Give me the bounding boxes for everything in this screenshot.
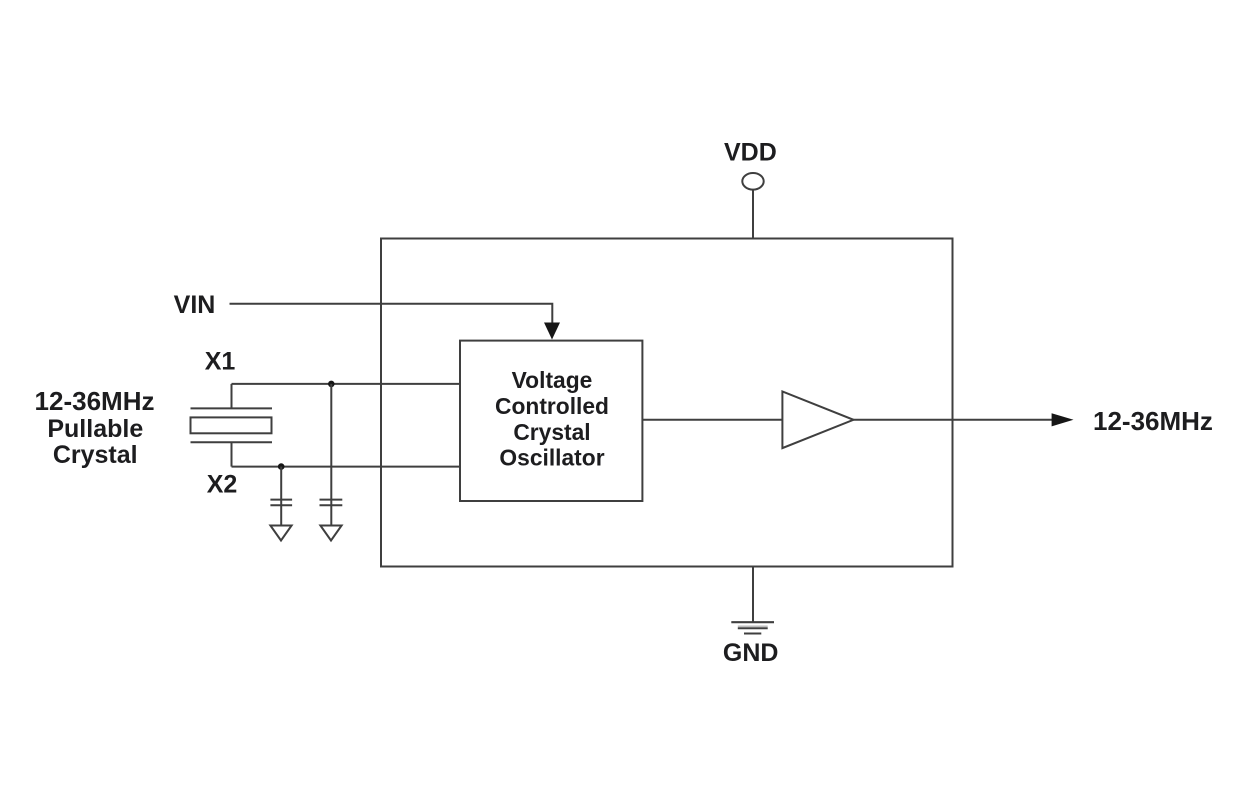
svg-text:X2: X2: [207, 471, 238, 499]
svg-text:Pullable: Pullable: [47, 415, 143, 443]
svg-text:X1: X1: [205, 347, 236, 375]
svg-text:VIN: VIN: [174, 291, 216, 319]
svg-text:Oscillator: Oscillator: [499, 445, 604, 471]
svg-text:12-36MHz: 12-36MHz: [1093, 406, 1213, 436]
svg-text:GND: GND: [723, 639, 779, 667]
svg-text:Crystal: Crystal: [53, 441, 138, 469]
svg-text:12-36MHz: 12-36MHz: [35, 386, 155, 416]
svg-text:Controlled: Controlled: [495, 393, 609, 419]
svg-text:Voltage: Voltage: [512, 367, 593, 393]
svg-text:VDD: VDD: [724, 138, 777, 166]
svg-text:Crystal: Crystal: [513, 419, 590, 445]
